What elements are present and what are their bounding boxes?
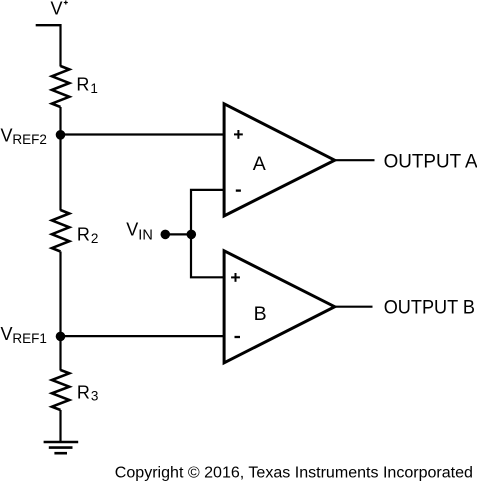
op-amp B + input pin marker bbox=[231, 273, 240, 282]
svg-text:B: B bbox=[254, 303, 267, 325]
svg-text:Copyright © 2016, Texas Instru: Copyright © 2016, Texas Instruments Inco… bbox=[115, 464, 473, 482]
resistor R1 bbox=[52, 66, 69, 107]
resistor R3 value label bbox=[77, 382, 99, 403]
svg-text:OUTPUT B: OUTPUT B bbox=[384, 298, 475, 319]
resistor R3 bbox=[52, 370, 69, 410]
resistor R2 bbox=[52, 210, 69, 252]
VIN junction dot bbox=[187, 230, 197, 240]
svg-text:REF1: REF1 bbox=[12, 331, 47, 346]
svg-text:R: R bbox=[76, 75, 89, 95]
svg-text:1: 1 bbox=[90, 81, 98, 96]
wire op-amp A output bbox=[334, 159, 375, 161]
node VREF1 junction dot bbox=[56, 332, 66, 342]
svg-text:R: R bbox=[77, 225, 90, 245]
node V+ label bbox=[51, 0, 68, 19]
power supply V+ rail bar bbox=[36, 24, 61, 26]
wire VREF2 to op-amp A + input bbox=[61, 133, 226, 135]
resistor R1 value label bbox=[76, 75, 98, 96]
svg-text:A: A bbox=[253, 153, 266, 175]
wire VREF1 to op-amp B - input bbox=[61, 335, 226, 337]
node VREF2 label bbox=[1, 125, 47, 147]
wire VIN lead bbox=[165, 233, 191, 235]
svg-text:IN: IN bbox=[138, 227, 153, 243]
op-amp B - input pin marker bbox=[235, 336, 241, 338]
wire from V+ bar to resistor R1 bbox=[59, 24, 61, 67]
op-amp U2B bbox=[224, 251, 335, 363]
wire from R1 to node VREF2 bbox=[59, 107, 61, 211]
node VREF2 junction dot bbox=[56, 130, 66, 140]
wire from R2 to node VREF1 bbox=[59, 252, 61, 371]
op-amp A + input pin marker bbox=[234, 130, 243, 139]
op-amp U1A bbox=[224, 104, 335, 216]
wire op-amp B output bbox=[334, 306, 373, 308]
svg-text:2: 2 bbox=[91, 231, 99, 246]
VIN terminal dot bbox=[161, 230, 171, 240]
node VREF1 label bbox=[1, 324, 47, 346]
svg-text:3: 3 bbox=[91, 389, 99, 404]
op-amp A - input pin marker bbox=[236, 189, 241, 191]
svg-text:OUTPUT A: OUTPUT A bbox=[384, 152, 477, 173]
resistor R2 value label bbox=[77, 225, 99, 246]
svg-text:R: R bbox=[77, 382, 90, 402]
svg-text:V: V bbox=[51, 0, 63, 19]
svg-text:V: V bbox=[1, 125, 13, 145]
wire VIN branch to op-amp A - input bbox=[191, 190, 225, 277]
svg-text:V: V bbox=[1, 324, 13, 344]
svg-text:REF2: REF2 bbox=[12, 132, 47, 147]
svg-text:V: V bbox=[126, 220, 138, 240]
node VIN label bbox=[126, 220, 153, 244]
wire from R3 to ground bbox=[59, 410, 61, 442]
ground bbox=[44, 442, 79, 453]
